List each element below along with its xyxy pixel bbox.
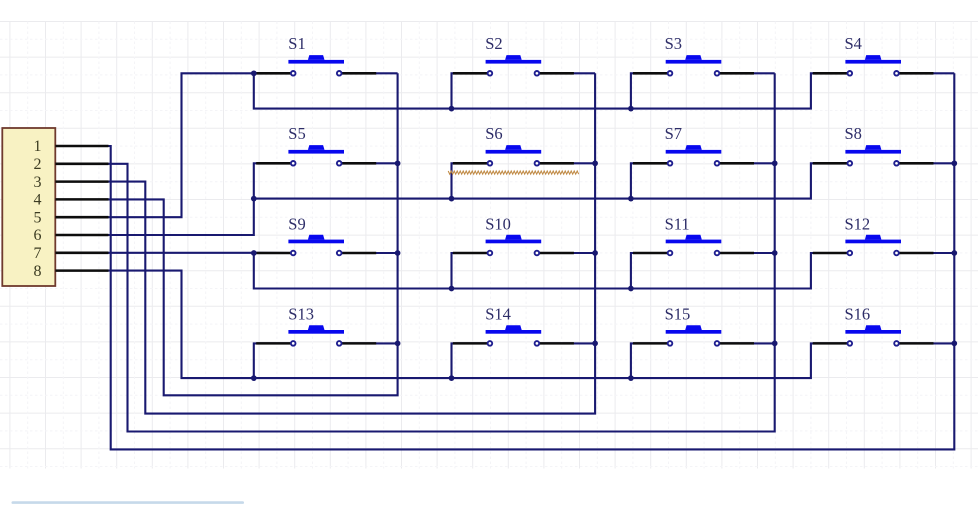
wire S14 right terminal to column 2 — [537, 342, 595, 344]
pushbutton S8 — [813, 145, 934, 166]
junction column 1 / row 3 contact — [395, 250, 401, 256]
connector pin 1 — [34, 138, 109, 155]
junction row4 bus / S15 riser — [628, 375, 634, 381]
junction column 3 / row 2 contact — [772, 160, 778, 166]
wire S3 right terminal to column 3 — [717, 72, 775, 74]
svg-text:S16: S16 — [845, 305, 871, 324]
junction pin6 riser / row2 bus — [251, 196, 257, 202]
pushbutton S10 — [453, 235, 574, 256]
wire row 1 bus riser to S2 — [452, 73, 490, 108]
junction column 2 / row 4 contact — [592, 341, 598, 347]
wire S8 right terminal to column 4 — [897, 162, 955, 164]
wire pin 2 to column 3 — [109, 73, 775, 431]
svg-text:S3: S3 — [665, 34, 682, 53]
connector pin 7 — [34, 245, 109, 262]
svg-text:S8: S8 — [845, 124, 862, 143]
wire row 2 bus riser to S6 — [452, 163, 490, 198]
connector pin 3 — [34, 174, 109, 191]
junction row1 bus / S3 riser — [628, 106, 634, 112]
svg-text:S7: S7 — [665, 124, 682, 143]
svg-text:4: 4 — [34, 192, 42, 209]
wire row 3 bus — [254, 253, 850, 289]
pushbutton S16 — [813, 325, 934, 346]
pushbutton S9 — [256, 235, 376, 256]
pushbutton S4 — [813, 55, 934, 76]
svg-text:8: 8 — [34, 263, 42, 280]
svg-text:3: 3 — [34, 174, 42, 191]
wire pin 7 to row 3 node at S9 — [109, 252, 294, 254]
junction column 3 / row 3 contact — [772, 250, 778, 256]
pushbutton S5 — [256, 145, 376, 166]
pushbutton S6 — [453, 145, 574, 166]
wire S6 right terminal to column 2 — [537, 162, 595, 164]
svg-text:S9: S9 — [288, 215, 305, 234]
junction column 2 / row 3 contact — [592, 250, 598, 256]
wire row 3 bus riser to S11 — [631, 253, 670, 289]
junction row4 bus / S14 riser — [449, 375, 455, 381]
junction row2 bus / S7 riser — [628, 196, 634, 202]
wire S9 right terminal to column 1 — [339, 252, 397, 254]
junction column 2 / row 2 contact — [592, 160, 598, 166]
junction column 1 / row 2 contact — [395, 160, 401, 166]
horizontal scrollbar thumb — [12, 501, 245, 504]
junction column 1 / row 4 contact — [395, 341, 401, 347]
wire pin 4 to column 1 — [109, 73, 398, 395]
wire S12 right terminal to column 4 — [897, 252, 955, 254]
wire row 4 bus riser to S15 — [631, 343, 670, 378]
wire pin 8 to row 4 bus — [109, 271, 850, 379]
pushbutton S7 — [633, 145, 754, 166]
wire S15 right terminal to column 3 — [717, 342, 775, 344]
svg-text:S15: S15 — [665, 305, 691, 324]
pushbutton S1 — [256, 55, 376, 76]
pushbutton S11 — [633, 235, 754, 256]
wire pin 1 to column 4 — [109, 73, 955, 449]
junction row3 bus / S11 riser — [628, 286, 634, 292]
junction column 4 / row 4 contact — [951, 341, 957, 347]
svg-text:S11: S11 — [665, 215, 690, 234]
pushbutton S3 — [633, 55, 754, 76]
svg-text:S5: S5 — [288, 124, 305, 143]
wire row 3 bus riser to S10 — [452, 253, 490, 289]
junction row3 bus / S10 riser — [449, 286, 455, 292]
junction column 4 / row 3 contact — [951, 250, 957, 256]
wire S4 right terminal to column 4 — [897, 72, 955, 74]
wire S7 right terminal to column 3 — [717, 162, 775, 164]
connector pin 5 — [34, 209, 109, 226]
junction row4 bus / S13 drop — [251, 375, 257, 381]
wire pin 3 to column 2 — [109, 73, 596, 413]
svg-text:S10: S10 — [485, 215, 511, 234]
junction row2 bus / S6 riser — [449, 196, 455, 202]
wire pin 6 to row 2 (S5) — [109, 163, 294, 235]
svg-text:2: 2 — [34, 156, 42, 173]
wire row 2 bus riser to S7 — [631, 163, 670, 198]
wire S5 right terminal to column 1 — [339, 162, 397, 164]
pushbutton S15 — [633, 325, 754, 346]
wire S11 right terminal to column 3 — [717, 252, 775, 254]
connector pin 6 — [34, 227, 109, 244]
svg-text:S14: S14 — [485, 305, 511, 324]
pushbutton S13 — [256, 325, 376, 346]
wire S1 right terminal to column 1 — [339, 72, 397, 74]
wire S13 right terminal to column 1 — [339, 342, 397, 344]
wire S16 right terminal to column 4 — [897, 342, 955, 344]
error marker squiggle under S6 — [448, 171, 579, 174]
wire row 1 bus riser to S3 — [631, 73, 670, 108]
wire S13 drop to row 4 bus — [254, 343, 293, 378]
pushbutton S14 — [453, 325, 574, 346]
svg-text:S2: S2 — [485, 34, 502, 53]
junction pin7/S9/row3 drop — [251, 250, 257, 256]
wire S10 right terminal to column 2 — [537, 252, 595, 254]
connector body (8-pin header) — [2, 128, 55, 286]
svg-text:7: 7 — [34, 245, 42, 262]
svg-text:S13: S13 — [288, 305, 314, 324]
wire S2 right terminal to column 2 — [537, 72, 595, 74]
svg-text:S4: S4 — [845, 34, 862, 53]
wire row 4 bus riser to S14 — [452, 343, 490, 378]
svg-text:S6: S6 — [485, 124, 502, 143]
connector pin 8 — [34, 263, 109, 280]
svg-text:6: 6 — [34, 227, 42, 244]
junction pin5/S1/row1-bus — [251, 70, 257, 76]
wire pin 5 to row 1 node at S1 — [109, 73, 294, 217]
wire row 1 bus — [254, 73, 850, 108]
pushbutton S12 — [813, 235, 934, 256]
pushbutton S2 — [453, 55, 574, 76]
svg-text:S12: S12 — [845, 215, 871, 234]
junction row1 bus / S2 riser — [449, 106, 455, 112]
connector pin 4 — [34, 192, 109, 209]
junction column 3 / row 4 contact — [772, 341, 778, 347]
junction column 4 / row 2 contact — [951, 160, 957, 166]
connector pin 2 — [34, 156, 109, 173]
svg-text:5: 5 — [34, 209, 42, 226]
svg-text:S1: S1 — [288, 34, 305, 53]
svg-text:1: 1 — [34, 138, 42, 155]
wire row 2 bus — [254, 163, 850, 198]
